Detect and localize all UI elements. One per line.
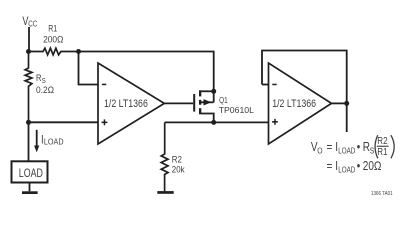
wire bottom net — [165, 121, 269, 123]
wire inverting stub op-amp U2 — [262, 84, 269, 86]
ground under load — [22, 191, 38, 194]
transistor Q1 gate bar — [193, 94, 195, 112]
equation line 1 — [311, 141, 374, 155]
plus glyph U2 — [272, 119, 278, 125]
wire output stub VO — [346, 103, 348, 132]
op-amp U1 — [98, 63, 164, 144]
svg-text:R: R — [363, 141, 370, 154]
equation fraction R2 over R1 — [377, 135, 389, 157]
svg-text:R2: R2 — [377, 135, 387, 146]
op-amp U2 — [269, 63, 332, 144]
svg-text:20k: 20k — [172, 164, 185, 175]
svg-text:200Ω: 200Ω — [43, 34, 64, 45]
svg-text:TP0610L: TP0610L — [219, 105, 254, 115]
svg-text:1/2 LT1366: 1/2 LT1366 — [104, 98, 148, 110]
svg-text:•: • — [357, 141, 361, 154]
svg-text:=: = — [327, 160, 333, 173]
transistor Q1 body tie — [213, 91, 215, 102]
junction dot Q1 drain — [211, 120, 216, 125]
transistor Q1 source stub — [201, 90, 214, 92]
resistor R2 — [161, 122, 168, 191]
junction dot Q1 source — [211, 89, 216, 94]
wire op-amp U2 output — [332, 102, 347, 104]
svg-text:LOAD: LOAD — [338, 166, 355, 175]
svg-text:Q1: Q1 — [219, 95, 228, 105]
svg-text:•: • — [357, 160, 361, 173]
resistor R1 — [29, 48, 79, 55]
transistor Q1 body stub with arrow — [201, 99, 214, 105]
svg-text:S: S — [370, 146, 375, 156]
svg-text:1/2 LT1366: 1/2 LT1366 — [272, 98, 316, 110]
svg-text:20Ω: 20Ω — [363, 160, 382, 173]
ground under R2 — [157, 191, 173, 194]
equation big right paren — [391, 135, 394, 158]
wire noninverting input op-amp U1 — [29, 121, 99, 123]
label R2 value — [172, 154, 185, 174]
equation big left paren — [375, 135, 378, 158]
svg-text:=: = — [327, 141, 333, 154]
transistor Q1 drain stub — [201, 114, 214, 123]
svg-text:R1: R1 — [48, 24, 57, 34]
svg-text:O: O — [317, 146, 322, 156]
wire load drop — [28, 122, 30, 161]
wire feedback loop op-amp U2 — [262, 51, 347, 104]
label ILOAD — [41, 134, 64, 147]
wire VCC stub — [28, 27, 30, 52]
junction dot output node — [344, 101, 349, 106]
minus glyph U1 — [102, 84, 106, 86]
svg-text:0.2Ω: 0.2Ω — [36, 85, 54, 96]
svg-text:LOAD: LOAD — [19, 168, 43, 180]
wire op-amp U1 output to gate — [164, 102, 193, 104]
svg-text:LOAD: LOAD — [338, 147, 355, 156]
transistor Q1 channel segments — [199, 90, 201, 114]
minus glyph U2 — [272, 84, 276, 86]
label Q1 — [219, 95, 254, 115]
wire load to ground — [29, 183, 31, 192]
junction dot left rail — [26, 49, 31, 54]
resistor RS — [25, 52, 32, 123]
wire inverting input path op-amp U1 — [79, 52, 99, 85]
junction dot R1 right — [76, 49, 81, 54]
wire top rail — [79, 52, 214, 92]
plus glyph U1 — [102, 119, 108, 125]
current arrow ILOAD — [34, 130, 39, 153]
svg-text:LOAD: LOAD — [44, 137, 64, 147]
equation line 2 — [327, 160, 382, 174]
junction dot sense node — [26, 120, 31, 125]
label R1 value — [43, 24, 64, 45]
svg-text:R1: R1 — [377, 146, 387, 157]
svg-text:R: R — [36, 72, 41, 83]
label RS value — [36, 72, 54, 95]
svg-text:1366 TA01: 1366 TA01 — [371, 191, 393, 196]
node VCC label — [22, 15, 37, 29]
load box — [12, 161, 48, 182]
